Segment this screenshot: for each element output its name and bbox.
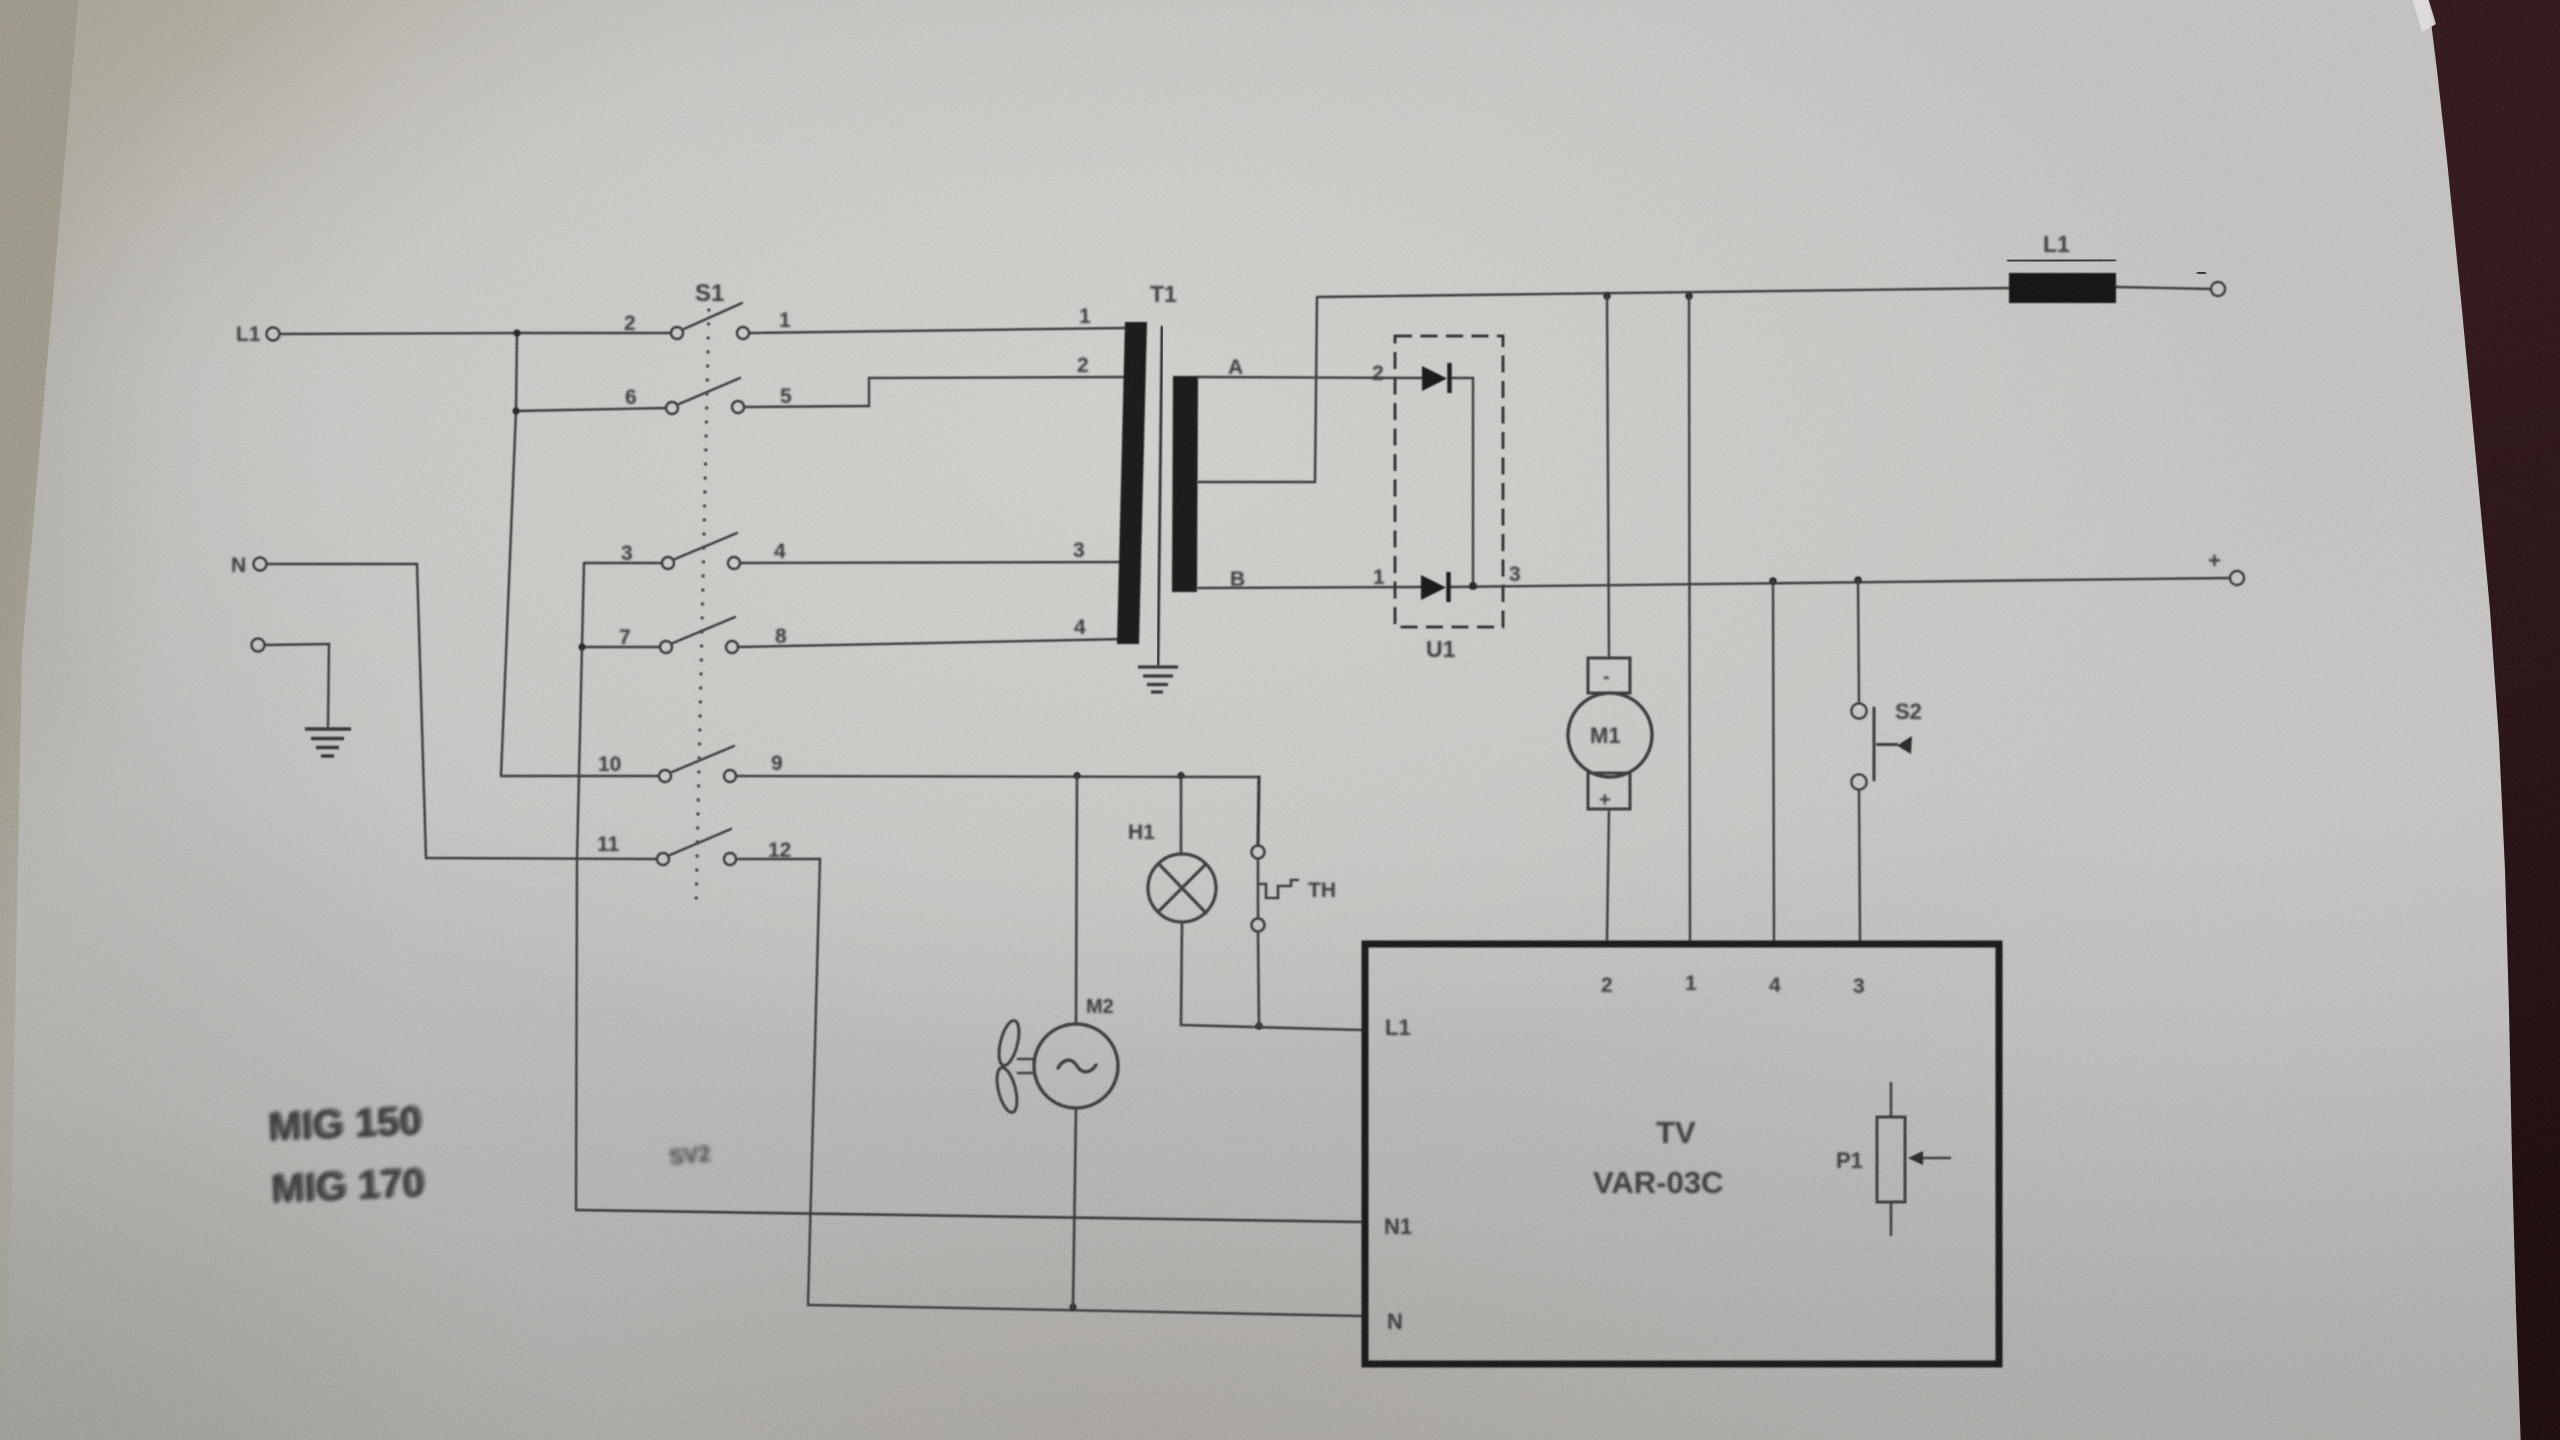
transformer T1 ground <box>1138 667 1178 692</box>
lamp H1 <box>1148 776 1362 1031</box>
wire center tap up to minus rail <box>1198 297 1317 482</box>
switch S2 blade <box>1873 708 1876 780</box>
wire H1 bottom to TV L1 row <box>1181 922 1362 1030</box>
node minus rail pin1 <box>1685 292 1693 300</box>
lamp H1 circle <box>1148 854 1216 922</box>
node row9 M2 tap <box>1073 772 1080 779</box>
TH element line <box>1257 859 1260 918</box>
switch S2 top contact <box>1851 703 1866 718</box>
wire 8 to T1 pin4 <box>738 639 1125 647</box>
wire row7 <box>582 646 659 648</box>
ground symbol input <box>305 729 351 756</box>
wire S2 to TV pin3 <box>1859 790 1860 941</box>
switch S1 blade 11-12 <box>670 829 731 855</box>
wire N to row 11 <box>267 564 656 859</box>
P1 wiper arrowhead <box>1908 1151 1923 1165</box>
switch S1 contact 2 <box>671 327 683 339</box>
wire diode2 cathode to rail <box>1451 378 1473 586</box>
minus sign <box>2197 271 2206 275</box>
dotted switch coupling line S1 <box>695 308 711 899</box>
M2 tilde <box>1058 1060 1096 1072</box>
wire N1 row to TV <box>576 1210 1362 1222</box>
wire vertical to row 10 <box>501 411 516 776</box>
wire row2 <box>517 332 670 334</box>
terminal ground input <box>252 639 265 652</box>
node U1 out <box>1469 582 1477 590</box>
terminal minus <box>2211 282 2225 296</box>
switch S1 contact 8 <box>726 641 738 653</box>
wire row3 <box>584 562 661 564</box>
node plus rail pin4 <box>1769 577 1777 585</box>
motor M1 lower box <box>1588 773 1630 809</box>
terminal L1 input <box>267 328 280 341</box>
motor M1 circle <box>1568 693 1652 777</box>
diode D1 <box>1421 572 1449 602</box>
fan blade lower <box>993 1066 1021 1115</box>
switch S1 contact 10 <box>659 770 671 782</box>
switch S1 blade 3-4 <box>675 533 737 559</box>
wire B to U1 <box>1198 587 1422 588</box>
inductor L1 output choke bar <box>2009 273 2116 303</box>
junction dots output side <box>1255 292 1862 1030</box>
node minus rail M1 <box>1603 292 1611 300</box>
node row6 <box>512 407 519 414</box>
node TV L1 row TH <box>1255 1022 1263 1030</box>
motor M2 circle <box>1034 1024 1118 1108</box>
wire 9 to TH corner <box>736 776 1259 845</box>
switch S1 contact 9 <box>724 770 736 782</box>
fan shaft <box>1018 1058 1034 1061</box>
switch S1 contact 3 <box>662 557 674 569</box>
TH top contact <box>1252 846 1265 859</box>
potentiometer P1 <box>1877 1083 1950 1235</box>
wire 12 down to N row <box>736 859 1362 1316</box>
TH squiggle <box>1259 880 1298 898</box>
wire to ground symbol <box>265 644 329 727</box>
wire vertical 7 down to N1 row <box>576 647 582 1210</box>
wire M1 top <box>1607 296 1609 658</box>
motor M1 upper box <box>1588 658 1630 693</box>
TH bottom contact <box>1252 919 1265 932</box>
wire vertical 3-7 <box>582 563 584 647</box>
node plus rail S2 <box>1854 576 1862 584</box>
switch S1 contact 12 <box>724 853 736 865</box>
wire L1 to junction <box>280 333 517 334</box>
wire inductor to minus terminal <box>2116 287 2211 289</box>
switch S1 blade 2-1 <box>684 303 742 329</box>
wire TV pin1 to minus rail <box>1689 296 1690 941</box>
junction dots input side <box>512 329 1184 1310</box>
wire M2 bottom <box>1073 1108 1076 1307</box>
plus rail <box>1450 578 2230 587</box>
transformer T1 secondary bar <box>1172 376 1198 592</box>
transformer T1 core <box>1158 326 1162 666</box>
fan motor M2 <box>993 776 1118 1308</box>
inductor overline <box>2007 260 2116 261</box>
switch S2 actuator <box>1876 736 1912 754</box>
switch S1 contact 5 <box>732 401 744 413</box>
wire 5 to T1 pin2 <box>745 377 1125 407</box>
terminal N input <box>254 558 267 571</box>
wire TH bottom <box>1258 932 1259 1026</box>
diode D2 <box>1422 363 1450 393</box>
wire S2 top <box>1858 580 1859 703</box>
switch S1 blade 10-9 <box>672 746 734 772</box>
wire A to U1 <box>1198 377 1423 378</box>
node row9 H1 tap <box>1177 772 1184 779</box>
wire M1 to TV pin2 <box>1607 809 1609 941</box>
U1 dashed box <box>1395 336 1503 627</box>
wire junction vertical 2-6 <box>516 333 517 411</box>
wire TV pin4 to plus rail <box>1773 581 1774 941</box>
wire row6 <box>516 408 665 411</box>
switch S1 contact 6 <box>666 402 678 414</box>
wire 1 to T1 <box>750 328 1125 333</box>
switch S1 contact 4 <box>728 557 740 569</box>
node L1/vertical <box>513 329 520 336</box>
switch S1 contact 7 <box>660 641 672 653</box>
transformer T1 primary bar <box>1117 322 1147 644</box>
wire H1 top <box>1180 776 1183 855</box>
switch S1 contact 11 <box>657 853 669 865</box>
minus rail to inductor <box>1317 288 2009 297</box>
switch S2 bottom contact <box>1851 774 1866 789</box>
switch S1 contact 1 <box>737 327 749 339</box>
node row7 <box>578 643 585 650</box>
switch S1 blade 6-5 <box>679 378 740 404</box>
fan blade upper <box>995 1019 1023 1068</box>
wire row10 <box>501 775 658 777</box>
lamp H1 cross <box>1159 864 1206 913</box>
switch S1 blade 7-8 <box>673 617 735 643</box>
wire 4 to T1 pin3 <box>740 562 1125 563</box>
wire M2 top <box>1076 776 1077 1025</box>
node N row M2 <box>1069 1303 1076 1310</box>
thermal contact TH <box>1252 777 1299 1026</box>
control box TV VAR-03C <box>1365 944 1999 1364</box>
terminal plus <box>2230 571 2244 585</box>
wire TH top <box>1258 777 1259 845</box>
